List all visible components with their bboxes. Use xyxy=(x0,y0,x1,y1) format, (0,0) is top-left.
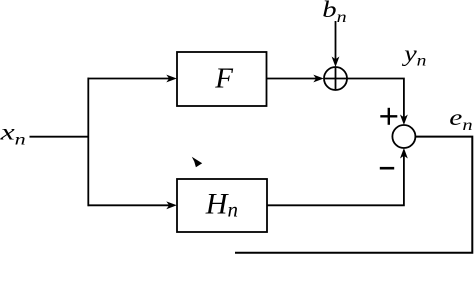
wire y_n xyxy=(347,79,404,119)
wire to H_n xyxy=(88,204,171,206)
wire F output xyxy=(267,78,318,80)
block H_n xyxy=(177,179,267,232)
minus sign xyxy=(380,167,394,170)
wire to F xyxy=(88,78,171,80)
block F xyxy=(177,52,267,106)
node e_n xyxy=(449,104,472,133)
svg-text:F: F xyxy=(214,63,233,95)
wire e_n output feedback xyxy=(235,137,472,253)
plus sign xyxy=(380,115,397,117)
summing junction 1 xyxy=(324,67,347,90)
adaptive arrowhead xyxy=(192,157,202,167)
summing junction 2 xyxy=(392,125,415,148)
wire branch vertical xyxy=(87,78,89,207)
wire b_n down xyxy=(335,21,337,60)
node y_n xyxy=(401,40,427,69)
wire H_n output xyxy=(267,155,404,205)
wire x_n input xyxy=(30,136,90,138)
node x_n xyxy=(0,119,26,149)
node b_n xyxy=(322,0,346,25)
